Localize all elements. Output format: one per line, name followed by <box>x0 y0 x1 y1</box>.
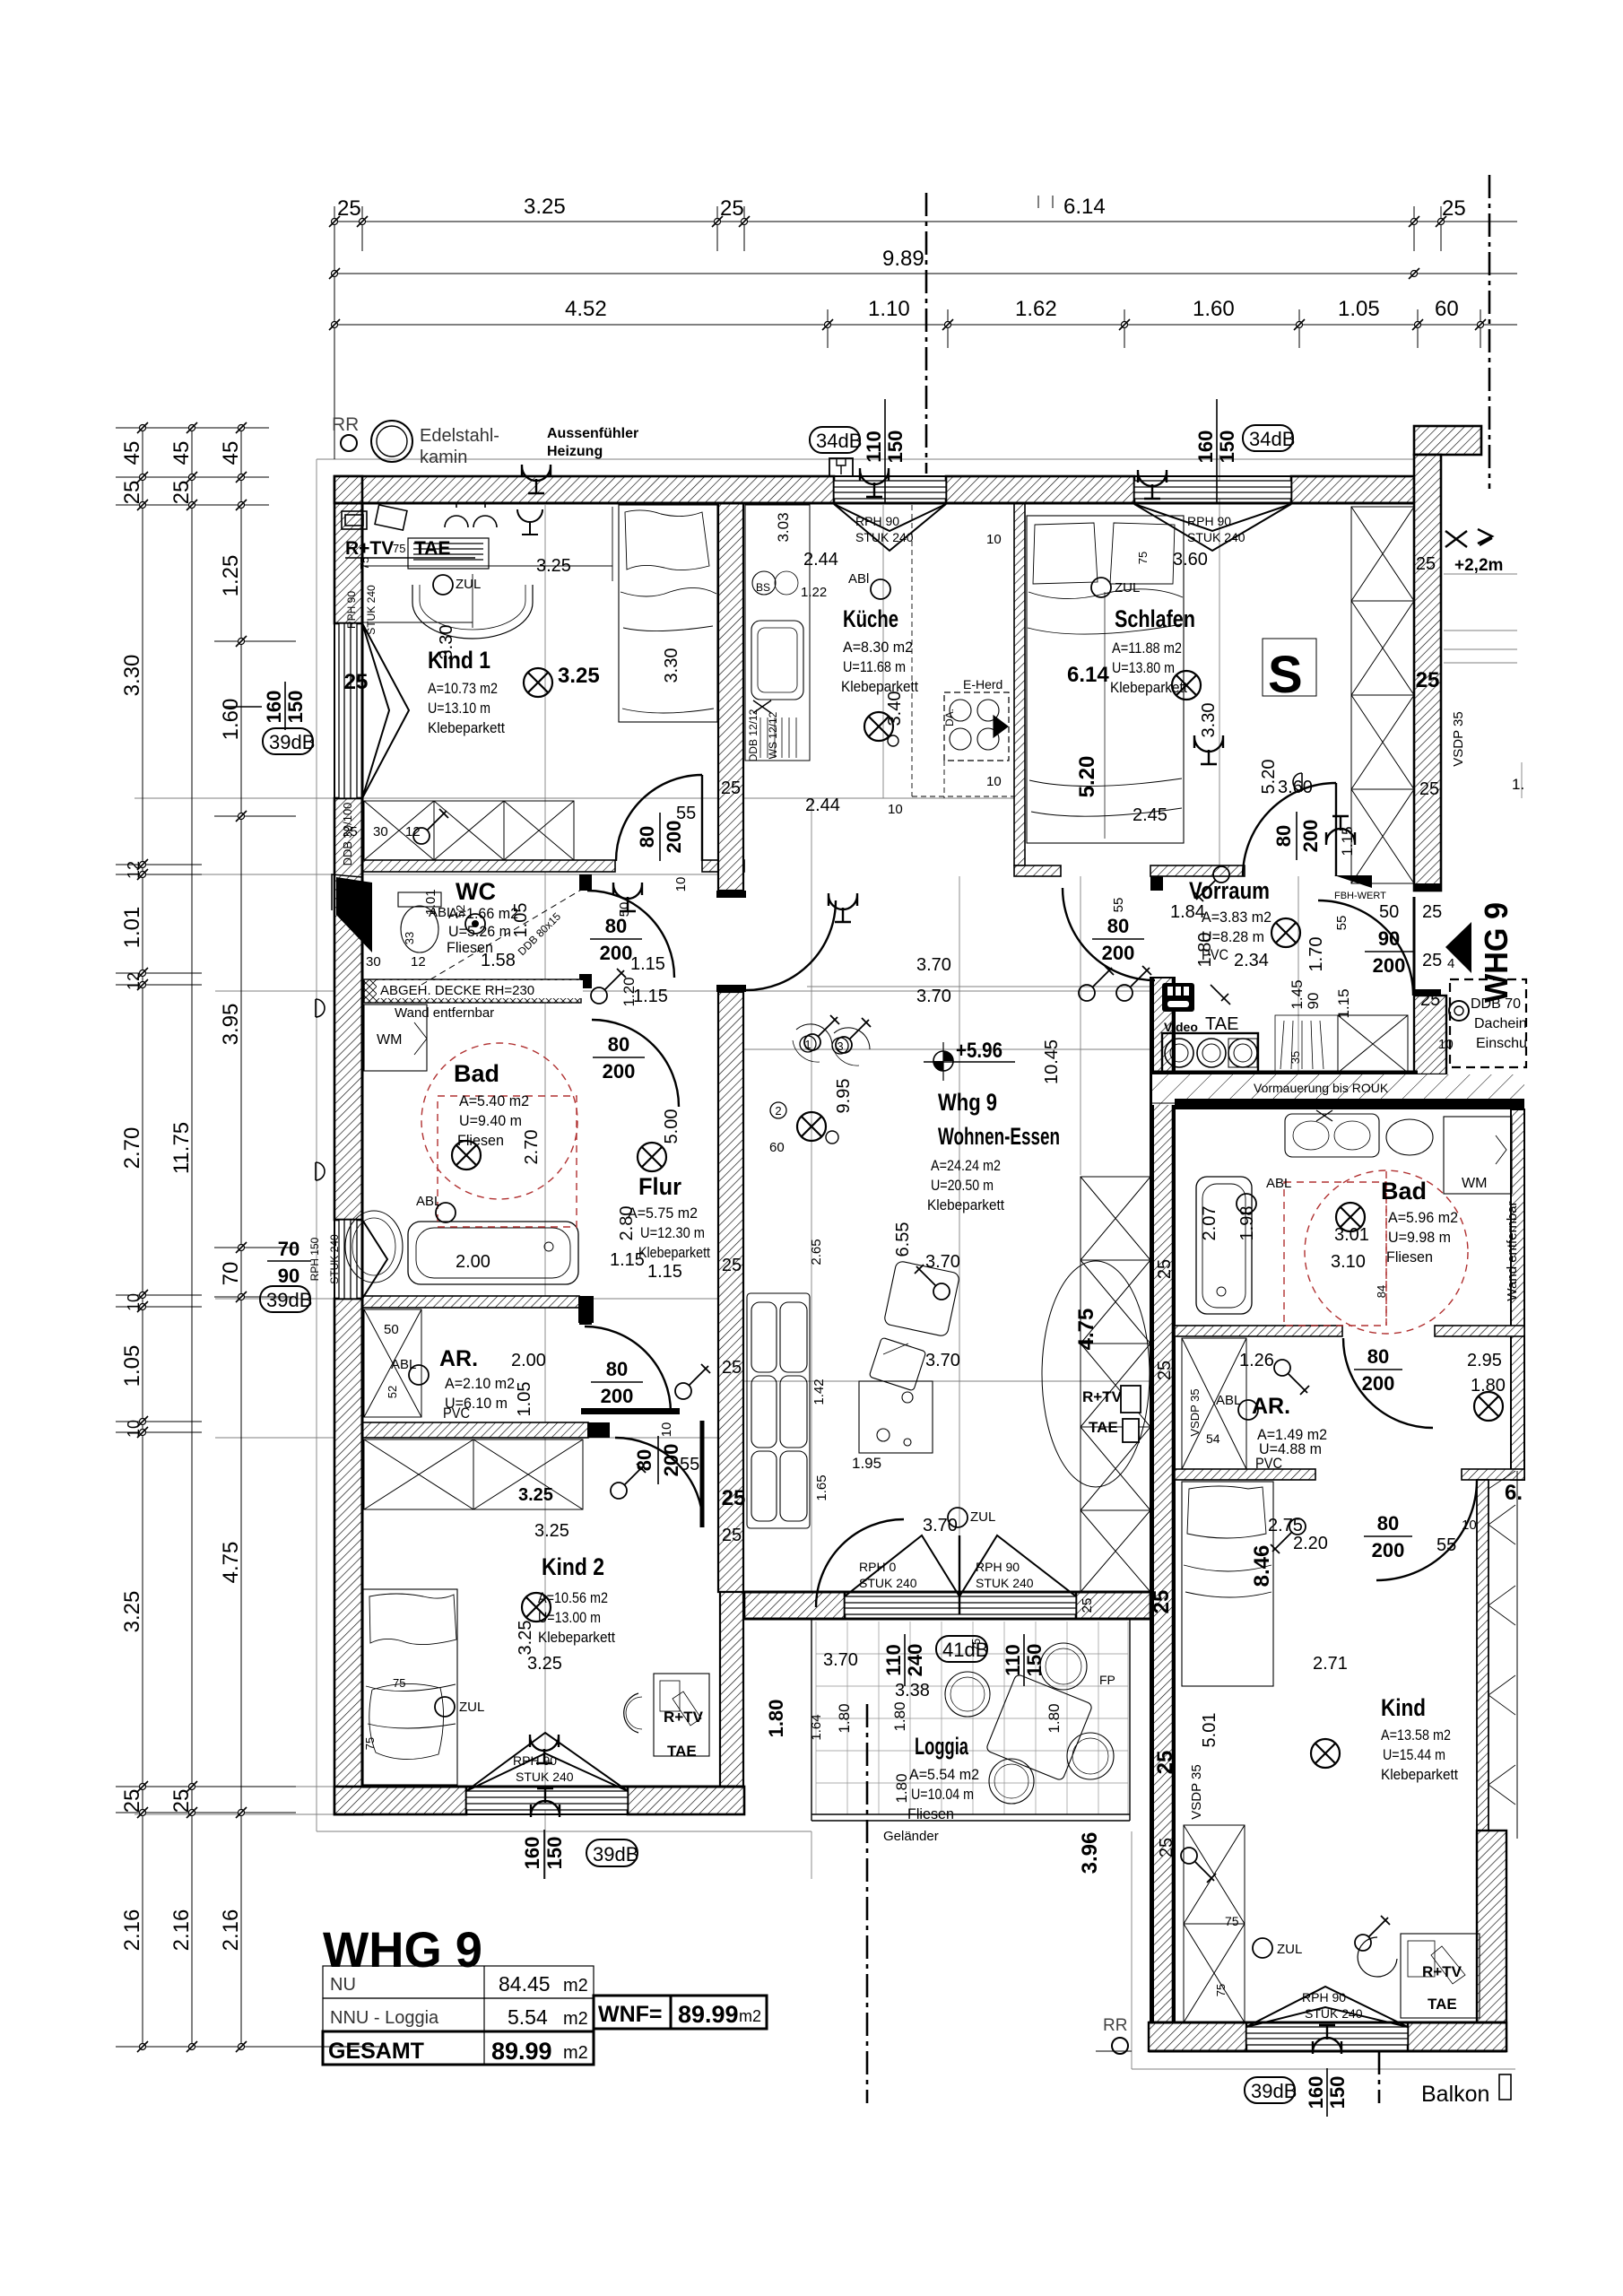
svg-text:1.62: 1.62 <box>1015 297 1057 321</box>
svg-text:110: 110 <box>863 430 885 463</box>
svg-text:2.75: 2.75 <box>1268 1516 1303 1535</box>
svg-text:A=10.73 m2: A=10.73 m2 <box>428 680 498 697</box>
svg-text:3.25: 3.25 <box>558 664 600 688</box>
svg-text:75: 75 <box>393 1676 405 1690</box>
svg-text:200: 200 <box>1362 1372 1395 1395</box>
svg-text:Wohnen-Essen: Wohnen-Essen <box>938 1123 1060 1150</box>
svg-text:3.70: 3.70 <box>916 955 951 975</box>
svg-text:34dB: 34dB <box>1249 428 1295 450</box>
svg-text:25: 25 <box>1422 902 1442 922</box>
svg-text:RPH 90: RPH 90 <box>1187 514 1231 528</box>
svg-text:1.80: 1.80 <box>1046 1703 1063 1733</box>
svg-text:Edelstahl-: Edelstahl- <box>420 426 499 446</box>
svg-text:3.60: 3.60 <box>1173 550 1208 570</box>
svg-text:25: 25 <box>169 1789 194 1813</box>
svg-text:ZUL: ZUL <box>1115 580 1140 596</box>
svg-text:3.70: 3.70 <box>923 1516 958 1535</box>
svg-text:VSDP 35: VSDP 35 <box>1188 1388 1202 1436</box>
svg-text:3.03: 3.03 <box>775 512 792 542</box>
svg-text:3: 3 <box>837 1039 843 1053</box>
svg-text:3.25: 3.25 <box>518 1485 553 1505</box>
svg-text:WNF=: WNF= <box>598 2002 663 2027</box>
svg-text:STUK 240: STUK 240 <box>855 530 914 544</box>
svg-text:STUK 240: STUK 240 <box>976 1576 1034 1590</box>
svg-text:1.05: 1.05 <box>120 1345 144 1387</box>
svg-text:3.01: 3.01 <box>1334 1225 1369 1245</box>
svg-text:25: 25 <box>722 1256 742 1275</box>
svg-text:12: 12 <box>411 954 426 970</box>
svg-text:25: 25 <box>1419 779 1439 799</box>
svg-text:80: 80 <box>1107 915 1129 937</box>
svg-text:ABL: ABL <box>416 1194 441 1209</box>
svg-text:2.16: 2.16 <box>169 1909 194 1952</box>
svg-text:FBH-WERT: FBH-WERT <box>1334 891 1386 901</box>
svg-text:9.89: 9.89 <box>882 247 924 271</box>
svg-text:1.70: 1.70 <box>1306 937 1326 972</box>
svg-text:3.30: 3.30 <box>437 625 456 660</box>
svg-text:ZUL: ZUL <box>970 1509 995 1525</box>
svg-text:160: 160 <box>521 1837 543 1870</box>
svg-text:55: 55 <box>1111 898 1126 913</box>
svg-text:STUK 240: STUK 240 <box>328 1234 341 1284</box>
svg-text:1.80: 1.80 <box>1471 1376 1506 1396</box>
svg-text:3.25: 3.25 <box>524 195 566 219</box>
svg-text:25: 25 <box>344 670 369 694</box>
svg-text:A=3.83 m2: A=3.83 m2 <box>1202 909 1271 926</box>
svg-text:34dB: 34dB <box>816 430 862 452</box>
svg-text:ABL: ABL <box>429 905 454 920</box>
svg-text:R+TV: R+TV <box>1082 1388 1123 1405</box>
svg-text:AR.: AR. <box>1252 1394 1290 1419</box>
svg-text:3.60: 3.60 <box>1278 778 1313 797</box>
svg-text:80: 80 <box>1272 825 1295 847</box>
svg-text:2.00: 2.00 <box>456 1252 490 1272</box>
svg-text:60: 60 <box>769 1140 785 1155</box>
svg-text:25: 25 <box>722 1358 742 1378</box>
svg-text:Wand entfernbar: Wand entfernbar <box>395 1005 494 1021</box>
svg-text:6.55: 6.55 <box>893 1222 913 1257</box>
svg-text:200: 200 <box>663 821 685 854</box>
svg-text:ZUL: ZUL <box>459 1700 484 1715</box>
svg-text:12: 12 <box>405 824 421 839</box>
svg-text:1.64: 1.64 <box>809 1714 824 1740</box>
svg-text:U=10.04 m: U=10.04 m <box>911 1786 974 1803</box>
svg-text:1.60: 1.60 <box>219 699 243 741</box>
svg-text:80: 80 <box>606 1358 628 1380</box>
svg-text:A=13.58 m2: A=13.58 m2 <box>1381 1726 1451 1744</box>
svg-text:50: 50 <box>384 1322 399 1337</box>
svg-text:Loggia: Loggia <box>915 1733 969 1760</box>
svg-text:+5.96: +5.96 <box>956 1039 1002 1063</box>
svg-text:Klebeparkett: Klebeparkett <box>1110 679 1187 696</box>
svg-text:89.99: 89.99 <box>678 2001 739 2028</box>
svg-text:5.20: 5.20 <box>1075 756 1099 798</box>
svg-text:Fliesen: Fliesen <box>457 1132 504 1149</box>
svg-text:1.01: 1.01 <box>120 907 144 949</box>
svg-text:150: 150 <box>1023 1644 1046 1677</box>
svg-text:WHG 9: WHG 9 <box>1478 902 1515 1003</box>
svg-text:75: 75 <box>969 1639 983 1651</box>
svg-text:75: 75 <box>393 542 405 555</box>
svg-text:ZUL: ZUL <box>456 577 481 592</box>
svg-text:TAE: TAE <box>1205 1014 1238 1034</box>
svg-text:55: 55 <box>680 1455 699 1474</box>
svg-text:m2: m2 <box>563 1976 588 1996</box>
svg-text:R+TV: R+TV <box>345 538 394 559</box>
svg-text:U=9.40 m: U=9.40 m <box>459 1112 522 1129</box>
svg-text:DDB 12/12: DDB 12/12 <box>747 709 759 761</box>
svg-text:RPH 90: RPH 90 <box>345 591 358 629</box>
svg-text:DA.: DA. <box>943 709 956 726</box>
svg-text:DDB 30/100: DDB 30/100 <box>341 803 354 866</box>
svg-text:R+TV: R+TV <box>664 1709 704 1726</box>
svg-text:3.96: 3.96 <box>1078 1832 1102 1874</box>
svg-text:200: 200 <box>1373 954 1406 977</box>
svg-text:25: 25 <box>1422 951 1442 970</box>
svg-text:160: 160 <box>263 691 285 724</box>
svg-text:BS: BS <box>756 581 770 594</box>
svg-text:3.38: 3.38 <box>895 1681 930 1700</box>
svg-text:Heizung: Heizung <box>547 444 603 459</box>
svg-text:80: 80 <box>636 826 658 848</box>
svg-text:30: 30 <box>366 954 381 970</box>
svg-text:U=15.44 m: U=15.44 m <box>1383 1746 1445 1763</box>
svg-text:NNU - Loggia: NNU - Loggia <box>330 2008 439 2028</box>
svg-text:4.52: 4.52 <box>565 297 607 321</box>
svg-text:Fliesen: Fliesen <box>907 1805 954 1822</box>
svg-text:10: 10 <box>986 774 1002 789</box>
svg-text:Whg 9: Whg 9 <box>938 1089 997 1116</box>
svg-text:U=20.50 m: U=20.50 m <box>931 1177 994 1194</box>
svg-text:1.80: 1.80 <box>765 1700 787 1738</box>
svg-text:RPH 90: RPH 90 <box>976 1560 1020 1574</box>
svg-text:25: 25 <box>1157 1838 1176 1857</box>
svg-text:U=13.00 m: U=13.00 m <box>538 1609 601 1626</box>
svg-text:10: 10 <box>986 532 1002 547</box>
svg-text:50: 50 <box>1379 902 1399 922</box>
svg-text:Bad: Bad <box>454 1060 499 1087</box>
svg-text:70: 70 <box>278 1238 299 1260</box>
svg-text:Bad: Bad <box>1381 1178 1427 1205</box>
svg-text:160: 160 <box>1305 2076 1327 2109</box>
svg-text:1.58: 1.58 <box>481 951 516 970</box>
svg-text:1.15: 1.15 <box>647 1262 682 1282</box>
svg-text:A=5.54 m2: A=5.54 m2 <box>909 1766 979 1783</box>
svg-text:2.80: 2.80 <box>617 1206 637 1241</box>
svg-text:52: 52 <box>386 1386 399 1398</box>
svg-text:1.80: 1.80 <box>1195 933 1215 968</box>
svg-text:84: 84 <box>1375 1285 1388 1298</box>
svg-text:NU: NU <box>330 1975 356 1995</box>
svg-text:2.44: 2.44 <box>803 550 838 570</box>
svg-text:1.05: 1.05 <box>1338 297 1380 321</box>
svg-text:1.26: 1.26 <box>1239 1351 1274 1370</box>
svg-text:VSDP 35: VSDP 35 <box>1451 711 1466 766</box>
svg-text:VSDP 35: VSDP 35 <box>1189 1764 1204 1819</box>
svg-text:200: 200 <box>1102 942 1135 964</box>
svg-text:3.30: 3.30 <box>120 655 144 697</box>
svg-text:5.20: 5.20 <box>1259 760 1279 795</box>
svg-text:2.07: 2.07 <box>1200 1206 1219 1241</box>
svg-text:STUK 240: STUK 240 <box>1187 530 1245 544</box>
svg-text:3.40: 3.40 <box>885 691 905 726</box>
svg-text:39dB: 39dB <box>266 1289 312 1311</box>
svg-text:Vorraum: Vorraum <box>1189 877 1270 904</box>
svg-text:1.05: 1.05 <box>515 1382 534 1417</box>
svg-text:Einschu: Einschu <box>1476 1036 1527 1051</box>
svg-text:2.16: 2.16 <box>120 1909 144 1952</box>
svg-text:2.95: 2.95 <box>1467 1351 1502 1370</box>
svg-text:Klebeparkett: Klebeparkett <box>841 678 918 695</box>
svg-text:ZUL: ZUL <box>1277 1942 1302 1957</box>
svg-text:S: S <box>1268 646 1303 704</box>
svg-text:45: 45 <box>219 441 243 465</box>
svg-text:6.14: 6.14 <box>1067 663 1109 687</box>
svg-text:39dB: 39dB <box>269 731 315 753</box>
svg-text:1.45: 1.45 <box>1289 979 1306 1009</box>
svg-text:1.15: 1.15 <box>633 987 668 1006</box>
svg-text:A=5.96 m2: A=5.96 m2 <box>1388 1209 1458 1226</box>
svg-text:8.46: 8.46 <box>1250 1545 1274 1587</box>
svg-text:25: 25 <box>169 481 194 505</box>
svg-text:45: 45 <box>120 441 144 465</box>
svg-text:Klebeparkett: Klebeparkett <box>428 719 505 736</box>
svg-text:80: 80 <box>605 915 627 937</box>
svg-text:4.75: 4.75 <box>1074 1309 1098 1351</box>
svg-text:1.15: 1.15 <box>630 954 665 974</box>
svg-text:1.: 1. <box>1512 776 1524 793</box>
svg-text:3.70: 3.70 <box>925 1351 960 1370</box>
svg-text:6.14: 6.14 <box>1063 195 1106 219</box>
svg-text:WM: WM <box>377 1032 402 1048</box>
svg-text:33: 33 <box>403 932 416 944</box>
svg-text:55: 55 <box>1436 1535 1456 1555</box>
svg-text:55: 55 <box>1334 916 1350 931</box>
svg-text:150: 150 <box>284 691 307 724</box>
svg-text:TAE: TAE <box>667 1743 697 1760</box>
svg-text:Klebeparkett: Klebeparkett <box>638 1244 710 1261</box>
svg-text:Dachein: Dachein <box>1474 1016 1527 1031</box>
svg-text:Schlafen: Schlafen <box>1115 605 1195 632</box>
svg-text:Klebeparkett: Klebeparkett <box>927 1196 1004 1213</box>
svg-text:STUK 240: STUK 240 <box>859 1576 917 1590</box>
svg-text:RPH 0: RPH 0 <box>859 1560 896 1574</box>
svg-text:90: 90 <box>278 1265 299 1287</box>
svg-text:150: 150 <box>543 1837 566 1870</box>
svg-text:150: 150 <box>1216 430 1238 464</box>
svg-text:m2: m2 <box>563 2009 588 2029</box>
svg-text:1: 1 <box>804 1038 811 1051</box>
svg-text:160: 160 <box>1194 430 1217 464</box>
svg-text:3.30: 3.30 <box>1199 703 1219 738</box>
svg-text:GESAMT: GESAMT <box>328 2039 424 2064</box>
svg-text:1.25: 1.25 <box>219 555 243 597</box>
svg-text:25: 25 <box>1155 1259 1175 1279</box>
svg-text:39dB: 39dB <box>1251 2080 1297 2102</box>
svg-text:3.25: 3.25 <box>120 1591 144 1633</box>
svg-text:4.75: 4.75 <box>219 1542 243 1584</box>
svg-text:240: 240 <box>904 1644 926 1677</box>
svg-text:TAE: TAE <box>1089 1419 1118 1436</box>
svg-text:A=10.56 m2: A=10.56 m2 <box>538 1589 608 1606</box>
svg-text:200: 200 <box>603 1060 636 1083</box>
svg-text:5.01: 5.01 <box>1200 1713 1219 1748</box>
svg-text:Flur: Flur <box>638 1173 681 1200</box>
svg-text:R+TV: R+TV <box>1422 1963 1462 1980</box>
svg-text:25: 25 <box>1155 1361 1175 1380</box>
svg-text:1.20: 1.20 <box>621 977 638 1006</box>
svg-text:25: 25 <box>722 1486 746 1510</box>
svg-text:m2: m2 <box>739 2007 761 2025</box>
svg-text:FP: FP <box>1099 1673 1115 1687</box>
svg-text:1.15: 1.15 <box>610 1250 645 1270</box>
svg-text:STUK 240: STUK 240 <box>365 585 378 635</box>
svg-text:25: 25 <box>1150 1590 1174 1614</box>
svg-text:PVC: PVC <box>443 1405 470 1422</box>
svg-text:150: 150 <box>884 430 907 464</box>
svg-text:A=2.10 m2: A=2.10 m2 <box>445 1375 515 1392</box>
svg-text:3.70: 3.70 <box>925 1252 960 1272</box>
svg-text:10: 10 <box>1438 1037 1454 1052</box>
svg-text:U=5.26 m: U=5.26 m <box>448 923 511 940</box>
svg-text:RPH 90: RPH 90 <box>513 1753 557 1768</box>
svg-text:A=24.24 m2: A=24.24 m2 <box>931 1157 1001 1174</box>
svg-text:WHG 9: WHG 9 <box>323 1921 482 1978</box>
svg-text:WM: WM <box>1462 1176 1487 1191</box>
svg-text:10.45: 10.45 <box>1042 1039 1062 1084</box>
svg-text:A=5.75 m2: A=5.75 m2 <box>628 1205 698 1222</box>
svg-text:80: 80 <box>1367 1345 1389 1368</box>
svg-text:Wand entfernbar: Wand entfernbar <box>1505 1201 1520 1300</box>
svg-text:1.60: 1.60 <box>1193 297 1235 321</box>
svg-text:2.65: 2.65 <box>809 1239 824 1265</box>
svg-text:ABGEH. DECKE RH=230: ABGEH. DECKE RH=230 <box>380 983 534 998</box>
svg-text:200: 200 <box>1372 1539 1405 1561</box>
svg-text:3.70: 3.70 <box>916 987 951 1006</box>
svg-text:3.25: 3.25 <box>534 1521 569 1541</box>
svg-text:10: 10 <box>673 877 689 892</box>
svg-text:RR: RR <box>1103 2016 1127 2035</box>
svg-text:Kind 2: Kind 2 <box>542 1553 604 1580</box>
svg-text:STUK 240: STUK 240 <box>516 1770 574 1784</box>
svg-text:110: 110 <box>1002 1644 1024 1676</box>
svg-text:ABL: ABL <box>1266 1176 1291 1191</box>
svg-text:Geländer: Geländer <box>883 1829 939 1844</box>
svg-text:2.70: 2.70 <box>522 1130 542 1165</box>
svg-text:U=9.98 m: U=9.98 m <box>1388 1229 1451 1246</box>
svg-text:A=5.40 m2: A=5.40 m2 <box>459 1092 529 1109</box>
svg-text:25: 25 <box>120 1789 144 1813</box>
svg-text:Balkon: Balkon <box>1421 2082 1489 2107</box>
svg-text:11.75: 11.75 <box>169 1122 194 1174</box>
svg-text:3.25: 3.25 <box>536 556 571 576</box>
svg-text:10: 10 <box>888 802 903 817</box>
svg-text:U=12.30 m: U=12.30 m <box>640 1224 705 1241</box>
svg-text:200: 200 <box>601 1385 634 1407</box>
svg-text:U=11.68 m: U=11.68 m <box>843 658 906 675</box>
svg-text:3.30: 3.30 <box>662 648 681 683</box>
svg-text:2.71: 2.71 <box>1313 1654 1348 1674</box>
svg-text:89.99: 89.99 <box>491 2038 552 2065</box>
svg-text:3.95: 3.95 <box>219 1004 243 1046</box>
svg-text:54: 54 <box>1206 1431 1220 1446</box>
svg-text:80: 80 <box>633 1449 655 1471</box>
svg-text:5.54: 5.54 <box>508 2005 548 2029</box>
svg-text:75: 75 <box>1136 552 1150 564</box>
svg-text:m2: m2 <box>563 2043 588 2063</box>
svg-text:10: 10 <box>659 1422 674 1438</box>
svg-text:1.80: 1.80 <box>893 1773 910 1803</box>
svg-text:25: 25 <box>1416 554 1436 574</box>
svg-text:90: 90 <box>1305 993 1322 1010</box>
svg-text:A=8.30 m2: A=8.30 m2 <box>843 639 913 656</box>
svg-text:25: 25 <box>721 778 741 798</box>
svg-text:150: 150 <box>1326 2076 1349 2109</box>
svg-text:RPH 90: RPH 90 <box>855 514 899 528</box>
svg-text:1.15: 1.15 <box>1339 826 1356 856</box>
svg-text:3.25: 3.25 <box>527 1654 562 1674</box>
svg-text:1.05: 1.05 <box>511 903 531 938</box>
svg-text:RPH 90: RPH 90 <box>1302 1990 1346 2005</box>
svg-text:1.42: 1.42 <box>811 1378 827 1405</box>
svg-text:200: 200 <box>1299 820 1322 853</box>
svg-text:Video: Video <box>1164 1020 1198 1034</box>
svg-text:25: 25 <box>722 1526 742 1545</box>
svg-text:75: 75 <box>1225 1914 1239 1928</box>
svg-text:1.15: 1.15 <box>1335 988 1352 1018</box>
svg-text:25: 25 <box>337 196 361 221</box>
svg-text:1.84: 1.84 <box>1170 902 1205 922</box>
svg-text:25: 25 <box>120 481 144 505</box>
svg-text:U=13.80 m: U=13.80 m <box>1112 659 1175 676</box>
svg-text:WS 12/12: WS 12/12 <box>767 711 779 759</box>
svg-text:1.80: 1.80 <box>836 1703 853 1733</box>
svg-text:3.25: 3.25 <box>516 1621 535 1656</box>
svg-text:Klebeparkett: Klebeparkett <box>1381 1766 1458 1783</box>
svg-text:kamin: kamin <box>420 448 467 467</box>
svg-text:TAE: TAE <box>1428 1996 1457 2013</box>
svg-text:2.16: 2.16 <box>219 1909 243 1952</box>
svg-text:2: 2 <box>775 1104 781 1118</box>
svg-text:25: 25 <box>1420 990 1440 1010</box>
svg-text:RPH 150: RPH 150 <box>308 1237 321 1281</box>
svg-text:STUK 240: STUK 240 <box>1305 2006 1363 2021</box>
svg-text:ABL: ABL <box>391 1357 416 1372</box>
svg-text:80: 80 <box>1377 1512 1399 1535</box>
svg-text:1.65: 1.65 <box>814 1474 829 1500</box>
svg-text:25: 25 <box>720 196 744 221</box>
svg-text:2.34: 2.34 <box>1234 951 1269 970</box>
svg-text:60: 60 <box>1435 297 1459 321</box>
svg-text:ABL: ABL <box>1216 1393 1241 1408</box>
svg-text:2.70: 2.70 <box>120 1127 144 1170</box>
svg-text:90: 90 <box>1378 927 1400 950</box>
svg-text:WC: WC <box>456 878 496 905</box>
svg-text:Klebeparkett: Klebeparkett <box>538 1629 615 1646</box>
svg-text:25: 25 <box>1080 1598 1095 1613</box>
svg-text:5.00: 5.00 <box>662 1109 681 1144</box>
svg-text:39dB: 39dB <box>593 1843 638 1865</box>
svg-text:75: 75 <box>363 1737 377 1750</box>
svg-text:70: 70 <box>219 1262 243 1286</box>
svg-text:1.80: 1.80 <box>891 1701 908 1731</box>
svg-text:Kind: Kind <box>1381 1694 1426 1721</box>
svg-text:1.95: 1.95 <box>852 1455 881 1472</box>
svg-text:75: 75 <box>1214 1984 1228 1996</box>
svg-text:2.45: 2.45 <box>1133 805 1167 825</box>
svg-text:Aussenfühler: Aussenfühler <box>547 426 638 441</box>
svg-text:200: 200 <box>660 1444 682 1477</box>
